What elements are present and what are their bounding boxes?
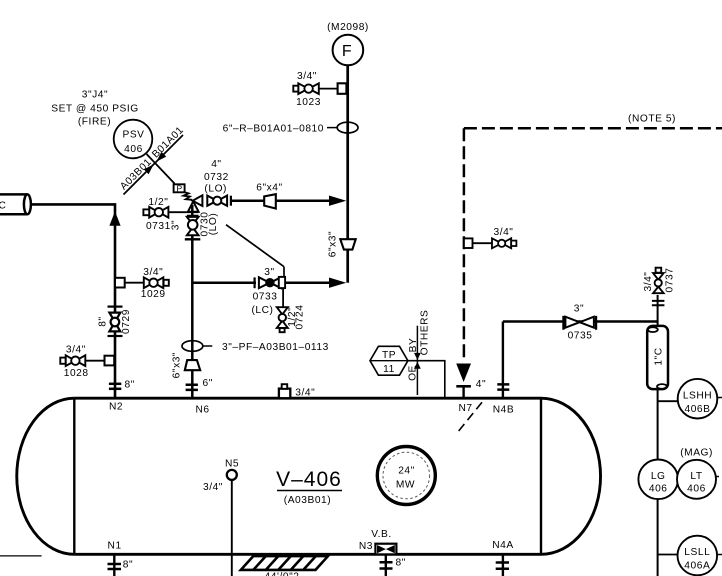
svg-text:TP: TP — [382, 350, 396, 361]
svg-text:406: 406 — [687, 483, 706, 494]
svg-text:3": 3" — [264, 267, 274, 278]
svg-text:0732: 0732 — [204, 172, 229, 183]
svg-text:V.B.: V.B. — [371, 529, 392, 540]
svg-text:N3: N3 — [359, 541, 373, 552]
svg-text:C: C — [0, 201, 6, 212]
svg-text:4": 4" — [211, 159, 221, 170]
PSV discharge line — [147, 154, 175, 184]
svg-text:0735: 0735 — [568, 331, 593, 342]
nozzle N6 flange pair — [186, 385, 198, 390]
valve 1023 branch — [338, 83, 347, 94]
svg-text:1/2": 1/2" — [148, 197, 168, 208]
instrument LG 406 — [638, 460, 678, 500]
svg-text:3/4": 3/4" — [494, 227, 514, 238]
instrument F (M2098) — [333, 35, 364, 66]
svg-text:3/4": 3/4" — [295, 387, 315, 398]
svg-text:0729: 0729 — [121, 309, 132, 334]
saddle hatch — [241, 556, 328, 570]
svg-text:(LO): (LO) — [208, 213, 219, 236]
branch boss to valve 1028 — [105, 356, 115, 366]
valve 1028 — [60, 355, 85, 366]
svg-text:44'/0"2: 44'/0"2 — [265, 572, 300, 576]
flanges below angle valve — [187, 212, 199, 216]
TP 11 hexagon — [370, 346, 408, 375]
spec break diagonal line — [124, 135, 184, 195]
svg-text:N6: N6 — [195, 405, 209, 416]
svg-text:1029: 1029 — [141, 289, 166, 300]
nozzle N7 arrow and flange — [456, 364, 471, 383]
svg-text:406A: 406A — [684, 560, 710, 571]
svg-text:0737: 0737 — [665, 268, 676, 293]
vent valve 0737 — [657, 295, 659, 326]
svg-text:4": 4" — [476, 379, 486, 390]
svg-text:11: 11 — [383, 364, 395, 375]
vent fitting 3/4 on shell — [279, 389, 290, 399]
svg-text:OE: OE — [407, 365, 418, 381]
pipe 0732 to header — [231, 199, 330, 202]
svg-text:8": 8" — [123, 559, 133, 570]
svg-text:N7: N7 — [458, 403, 472, 414]
svg-text:OTHERS: OTHERS — [420, 310, 431, 356]
bridle lower line — [657, 389, 659, 576]
svg-text:3/4": 3/4" — [66, 344, 86, 355]
vent branch 3/4 on dashed line — [464, 238, 473, 248]
svg-text:8": 8" — [125, 379, 135, 390]
flange on riser — [185, 238, 201, 240]
TP leader to vessel — [408, 361, 445, 399]
valve 0735 — [563, 316, 596, 330]
svg-text:(NOTE 5): (NOTE 5) — [628, 114, 676, 125]
level bridle 1"C — [647, 326, 668, 389]
svg-text:3"J4": 3"J4" — [82, 90, 108, 101]
svg-text:8": 8" — [97, 316, 108, 326]
arrow into header — [329, 196, 346, 206]
off-page connector C — [0, 194, 31, 214]
pipe from C to N2 riser — [31, 204, 115, 398]
nozzle N1 — [113, 554, 115, 576]
svg-text:406B: 406B — [685, 404, 711, 415]
zigzag — [183, 192, 192, 200]
drain to valve 0724 — [282, 288, 284, 307]
svg-text:(MAG): (MAG) — [680, 447, 713, 458]
dashed flare line (NOTE 5) — [464, 128, 722, 362]
valve 0731 — [168, 211, 187, 213]
nozzle N4A — [502, 554, 504, 576]
svg-text:MW: MW — [396, 480, 415, 491]
svg-text:N2: N2 — [109, 402, 123, 413]
svg-text:(LC): (LC) — [251, 305, 273, 316]
svg-text:(M2098): (M2098) — [327, 22, 369, 33]
svg-text:LG: LG — [651, 471, 666, 482]
svg-text:N4A: N4A — [492, 540, 513, 551]
nozzle N5 — [227, 470, 237, 480]
svg-text:PSV: PSV — [122, 129, 144, 140]
svg-text:3/4": 3/4" — [143, 267, 163, 278]
instrument LSHH 406B — [658, 400, 678, 402]
spec break arrows — [156, 152, 166, 162]
svg-text:0724: 0724 — [295, 305, 306, 330]
scope break BY OTHERS / OE — [416, 326, 418, 395]
diagonal to 0733 — [226, 225, 284, 277]
svg-text:6": 6" — [203, 378, 213, 389]
vessel V-406 shell — [17, 398, 601, 554]
svg-text:3"–PF–A03B01–0113: 3"–PF–A03B01–0113 — [222, 342, 329, 353]
svg-text:P: P — [176, 184, 182, 194]
svg-text:24": 24" — [398, 466, 415, 477]
reducer 6x3 top — [340, 239, 355, 249]
svg-text:0733: 0733 — [253, 292, 278, 303]
svg-text:1"C: 1"C — [653, 347, 664, 365]
valve 1029 — [144, 277, 169, 288]
flare header vertical — [346, 65, 349, 282]
pipe 0733 — [192, 281, 256, 284]
svg-text:6"x3": 6"x3" — [172, 352, 183, 378]
pipe N4B to bridle — [503, 320, 658, 322]
svg-text:LT: LT — [690, 471, 702, 482]
nozzle N4B riser — [502, 322, 504, 399]
valve 0730 — [187, 217, 199, 235]
svg-text:N4B: N4B — [493, 405, 514, 416]
svg-text:3": 3" — [574, 304, 584, 315]
svg-text:3/4": 3/4" — [643, 272, 654, 292]
svg-text:6"x4": 6"x4" — [256, 183, 282, 194]
ground line — [0, 555, 42, 557]
svg-text:3/4": 3/4" — [203, 482, 223, 493]
svg-text:1023: 1023 — [296, 97, 321, 108]
instrument LT 406 (MAG) — [677, 460, 716, 499]
specialty item P box — [174, 184, 185, 192]
svg-text:6"x3": 6"x3" — [328, 231, 339, 257]
internal dashed line below N7 — [458, 402, 482, 431]
nozzle N3 with V.B. valve — [375, 544, 396, 555]
svg-text:(A03B01): (A03B01) — [284, 495, 331, 506]
reducer 6x4 — [264, 194, 276, 208]
svg-text:LSHH: LSHH — [683, 390, 712, 401]
svg-text:406: 406 — [649, 483, 668, 494]
svg-text:3/4": 3/4" — [297, 71, 317, 82]
svg-text:F: F — [342, 43, 352, 60]
svg-text:N5: N5 — [225, 459, 239, 470]
svg-text:6"–R–B01A01–0810: 6"–R–B01A01–0810 — [223, 123, 324, 134]
valve 0729 — [108, 307, 123, 336]
svg-text:3": 3" — [170, 220, 181, 230]
angle valve body — [188, 195, 203, 212]
branch boss to valve 1029 — [115, 278, 125, 288]
flow arrow up — [109, 211, 120, 226]
svg-text:(FIRE): (FIRE) — [78, 117, 111, 128]
manway 24" MW — [377, 447, 435, 505]
svg-text:V–406: V–406 — [276, 468, 342, 491]
nozzle N2 flange pair — [109, 384, 121, 389]
PSV 406 — [114, 120, 153, 159]
svg-text:SET @ 450 PSIG: SET @ 450 PSIG — [51, 104, 139, 115]
riser N6 — [191, 205, 194, 398]
svg-text:8": 8" — [396, 558, 406, 569]
svg-text:(LO): (LO) — [204, 183, 227, 194]
reducer 6x3 at N6 — [185, 360, 200, 370]
svg-text:1028: 1028 — [64, 368, 89, 379]
instrument LSLL 406A — [658, 554, 678, 556]
svg-text:406: 406 — [124, 144, 143, 155]
line label 3-PF-A03B01-0113 — [182, 341, 203, 352]
svg-text:BY: BY — [408, 338, 419, 353]
valve 0732 — [207, 196, 227, 206]
svg-text:N1: N1 — [108, 540, 122, 551]
svg-text:0731: 0731 — [146, 221, 171, 232]
svg-text:LSLL: LSLL — [684, 547, 710, 558]
valve 0733 — [254, 277, 256, 288]
